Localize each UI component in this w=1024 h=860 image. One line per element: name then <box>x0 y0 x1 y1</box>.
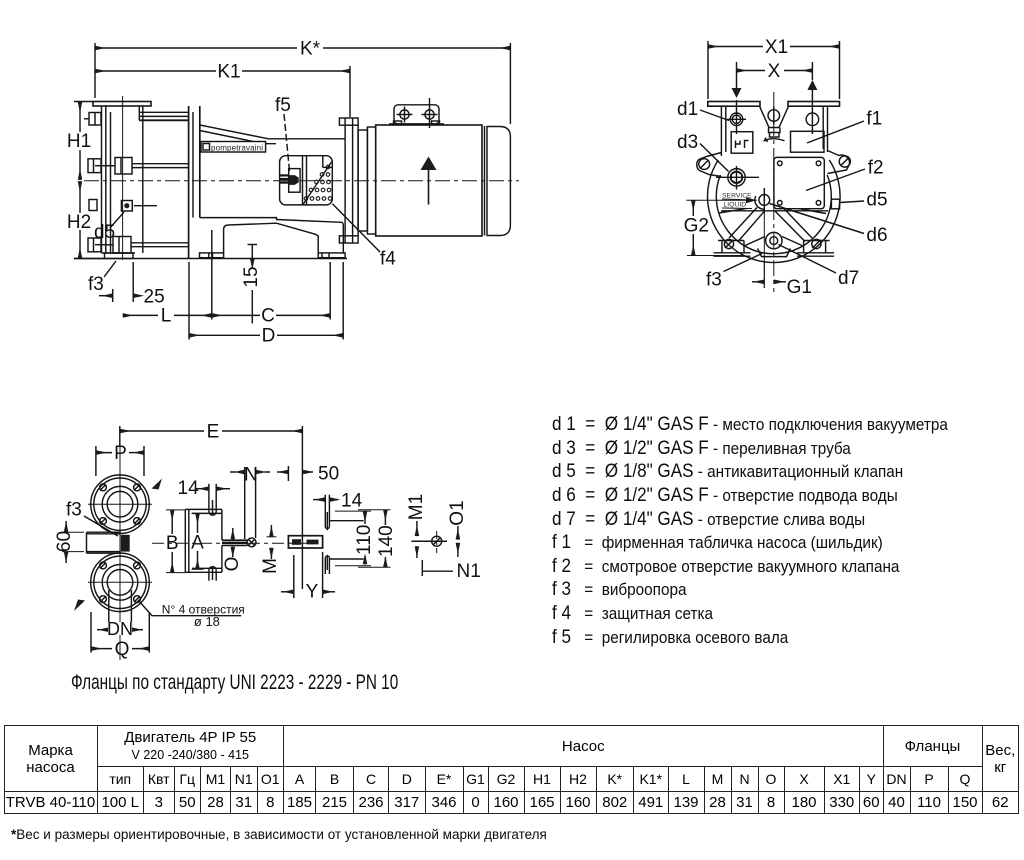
svg-text:X1: X1 <box>765 37 788 58</box>
dimension X <box>737 61 813 82</box>
suction pipe (edge-on) with vibration mount <box>87 532 121 553</box>
svg-text:M1: M1 <box>406 494 427 520</box>
svg-text:25: 25 <box>144 287 165 308</box>
main horizontal centerline <box>84 180 519 182</box>
bottom drain boss <box>758 248 791 256</box>
footnote <box>11 827 547 842</box>
rotation direction arrow <box>765 138 785 142</box>
pump body (top view) <box>185 509 222 572</box>
casing body joint band <box>189 106 200 259</box>
ground line <box>74 258 347 260</box>
svg-text:14: 14 <box>341 491 363 512</box>
svg-text:f4: f4 <box>380 249 396 270</box>
main casing inner rim <box>716 175 831 254</box>
cover plate left-side bolts <box>84 113 101 252</box>
svg-text:K1: K1 <box>217 62 240 83</box>
pump suction flange plate (side) <box>93 102 151 107</box>
flange centerline <box>122 96 124 260</box>
legend block <box>552 413 948 649</box>
dimension L <box>123 230 212 327</box>
dimension G2 <box>681 200 757 255</box>
casing front cover plate <box>102 106 111 253</box>
dimension Q <box>91 612 149 660</box>
motor step rings <box>358 127 376 234</box>
flange standard note <box>71 671 398 695</box>
f5 label + leader <box>275 95 291 171</box>
spokes of casing wheel <box>719 207 826 247</box>
dimension M1 <box>406 494 427 558</box>
d5 label (front) <box>840 190 888 211</box>
d3 label <box>677 132 729 172</box>
motor flange bosses (top view) <box>325 495 329 574</box>
main casing outer rim <box>708 160 841 263</box>
tie rod upper <box>95 158 189 175</box>
svg-text:O1: O1 <box>447 500 468 525</box>
svg-text:H1: H1 <box>67 131 91 152</box>
f1 label <box>807 109 882 144</box>
f4 label + leader <box>332 204 396 270</box>
d7 label <box>779 245 860 290</box>
svg-text:M: M <box>260 558 281 574</box>
motor mount flange <box>339 118 358 243</box>
svg-text:LIQUID: LIQUID <box>724 202 747 209</box>
svg-text:15: 15 <box>241 266 262 287</box>
f3 label (front) <box>706 254 762 291</box>
shaft bearing circle <box>247 538 256 547</box>
shaft adjustment screw f5 target <box>280 156 333 193</box>
dimension O <box>222 528 243 571</box>
vacuum gauge port d1 <box>727 113 746 126</box>
dimension table <box>4 725 1020 814</box>
shaft centerline <box>152 542 310 544</box>
pompetravaini nameplate <box>201 142 266 153</box>
bolt holes note <box>138 600 245 629</box>
bearing bracket (lantern) <box>280 156 333 205</box>
motor body <box>376 125 511 236</box>
pump shaft stub <box>222 540 248 545</box>
support bracket outline <box>200 218 343 254</box>
top boss (overflow pipe) <box>209 484 216 516</box>
svg-text:f3: f3 <box>88 274 104 295</box>
dimension DN <box>97 590 143 639</box>
dimension 15 <box>241 245 262 324</box>
svg-text:50: 50 <box>318 464 339 485</box>
svg-text:140: 140 <box>376 525 397 557</box>
flange axis vertical <box>119 447 121 660</box>
dimension H1 <box>67 102 93 181</box>
svg-text:G1: G1 <box>787 277 812 298</box>
svg-text:K*: K* <box>300 39 321 60</box>
svg-text:H2: H2 <box>67 212 91 233</box>
svg-text:D: D <box>262 326 276 347</box>
rotation arrow on motor <box>421 157 437 205</box>
dimension 25 <box>99 262 165 308</box>
dimension K* <box>95 39 510 125</box>
dimension A <box>191 513 205 569</box>
svg-text:ø 18: ø 18 <box>194 614 220 629</box>
svg-text:pompetravaini: pompetravaini <box>211 144 263 153</box>
lower flange (top view) <box>88 553 152 612</box>
pump port (black) <box>121 535 130 552</box>
casing neck below flange <box>139 106 188 253</box>
f3 label (top view) <box>66 500 118 537</box>
upper flange (top view) <box>88 475 152 534</box>
bottom boss <box>209 566 216 581</box>
svg-text:d5: d5 <box>866 190 887 211</box>
anticavitation valve d5 (bolt on cover) <box>121 201 157 212</box>
discharge port axis with up arrow <box>807 62 817 134</box>
pump vertical centerline <box>773 92 775 288</box>
support arm top <box>200 125 345 144</box>
dimension N <box>230 465 270 540</box>
suction port axis with down arrow <box>732 62 742 134</box>
foot pad under casing <box>102 253 136 259</box>
f2 label <box>806 158 884 191</box>
svg-text:f1: f1 <box>866 109 882 130</box>
coupling block <box>288 536 322 548</box>
flow direction arrows <box>152 479 163 490</box>
svg-text:X: X <box>768 61 781 82</box>
svg-text:f2: f2 <box>868 158 884 179</box>
motor foot bolt (top view) <box>411 531 447 553</box>
casing top body sides <box>721 106 827 156</box>
dimension B <box>165 510 186 573</box>
svg-text:110: 110 <box>354 525 375 555</box>
water drain d7 hub <box>766 232 782 248</box>
svg-text:E: E <box>207 422 220 443</box>
svg-text:14: 14 <box>178 478 200 499</box>
d6 label <box>770 204 888 247</box>
svg-text:d6: d6 <box>866 225 887 246</box>
left foot (front) <box>714 239 751 256</box>
svg-text:L: L <box>161 306 172 327</box>
svg-text:f5: f5 <box>275 95 291 116</box>
d1 label <box>677 99 729 121</box>
motor lifting lug <box>389 98 444 128</box>
dimension P <box>96 443 144 476</box>
overflow symbol box d3 area <box>731 132 753 154</box>
d5 side tab <box>831 199 839 209</box>
f1 nameplate <box>791 131 825 152</box>
dimension 140 <box>376 510 397 568</box>
d5 label <box>94 212 124 243</box>
dimension 110 <box>354 511 375 564</box>
casing mid chord line <box>721 210 828 212</box>
dimension 60 <box>54 521 84 563</box>
dimension G1 <box>752 260 812 298</box>
d6 axis extension for G1 <box>763 213 765 288</box>
dimension D <box>189 262 343 347</box>
left lug with bolt f3 mount <box>697 153 722 177</box>
dimension 14 (left) <box>178 478 231 499</box>
svg-text:d7: d7 <box>838 268 859 289</box>
bracket feet pads <box>200 253 346 258</box>
right lug with bolt <box>828 151 851 174</box>
dimension K1 <box>95 62 350 118</box>
motor flange outline (top view) <box>329 510 390 568</box>
svg-text:N1: N1 <box>457 561 481 582</box>
svg-text:d3: d3 <box>677 132 698 153</box>
svg-text:DN: DN <box>107 619 133 639</box>
svg-text:Q: Q <box>115 639 130 660</box>
vacuum valve inspection plate f2 <box>774 157 824 208</box>
dimension H2 <box>67 181 105 259</box>
dimension Y <box>281 552 335 603</box>
svg-text:Y: Y <box>306 582 319 603</box>
tie rod lower <box>95 237 189 254</box>
dimension M <box>260 525 281 574</box>
motor end cap <box>487 127 510 236</box>
f3 label (side) <box>88 261 116 295</box>
top flange plates <box>708 102 760 107</box>
service liquid text + arrow <box>720 190 757 209</box>
right foot (front) <box>797 239 834 256</box>
svg-text:C: C <box>261 306 275 327</box>
dimension X1 <box>708 37 840 99</box>
svg-text:60: 60 <box>54 531 75 552</box>
water inlet d6 <box>755 188 770 213</box>
dimension O1 <box>447 500 468 557</box>
V funnel with sight glass <box>760 106 789 137</box>
svg-text:f3: f3 <box>706 270 722 291</box>
dimension C <box>212 262 330 327</box>
dimension 14 (right) <box>313 491 363 512</box>
right port boss <box>806 113 819 126</box>
overflow pipe port d3 <box>716 166 759 190</box>
dimension E <box>120 422 303 590</box>
protection screen f4 (perforated) <box>303 162 332 205</box>
svg-text:N: N <box>244 465 258 486</box>
svg-text:G2: G2 <box>684 216 709 237</box>
svg-text:f3: f3 <box>66 500 82 521</box>
svg-text:d1: d1 <box>677 99 698 120</box>
dimension 50 <box>277 464 339 485</box>
svg-text:O: O <box>222 557 243 572</box>
dimension N1 <box>422 560 480 582</box>
